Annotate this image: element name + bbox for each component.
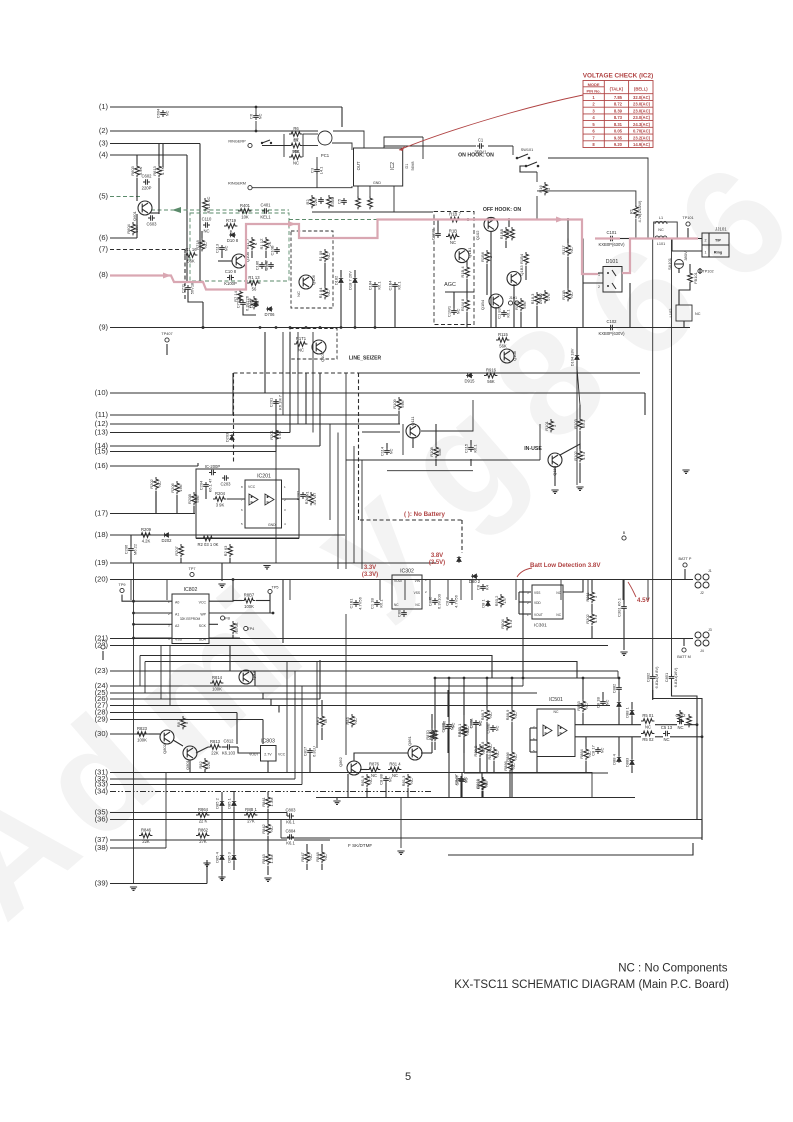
svg-text:RINGERP: RINGERP [228,140,246,144]
svg-text:R886: R886 [505,751,510,761]
resistor R804 4.7 [494,594,507,607]
label B point [622,531,626,540]
svg-text:TP407: TP407 [161,332,172,336]
svg-text:NC: NC [494,726,499,732]
diode D182 [334,275,344,285]
resistor R3x [356,196,361,209]
wire c3 drop2 [316,174,318,188]
resistor R823 100K [135,726,148,743]
wire drop x405 from bus20 [404,580,406,601]
capacitor C101 KXB [598,230,625,247]
capacitor C401 KEL1 [260,203,271,220]
svg-text:4.5V: 4.5V [637,597,651,604]
transistor Q111 [406,416,420,438]
svg-text:R883: R883 [576,700,581,710]
resistor R883 NC [576,699,589,712]
capacitor C110 NC [202,217,212,234]
svg-text:R843: R843 [261,853,266,863]
resistor R16 1 [538,182,551,195]
svg-text:C886: C886 [442,720,447,730]
voltage table text [586,82,650,147]
wire bundle b295 [294,671,296,779]
svg-text:VDD: VDD [534,601,541,605]
capacitor C804 K6.1 [285,829,296,846]
wire right L paths [672,690,698,820]
svg-text:NC: NC [645,725,651,730]
svg-text:Q80x: Q80x [251,670,256,680]
svg-text:( ): No Battery: ( ): No Battery [404,511,445,518]
svg-text:D85 3: D85 3 [227,851,232,862]
svg-text:K6.1: K6.1 [286,820,295,825]
inductor L1 NC [655,216,667,232]
svg-text:OFF HOOK: ON: OFF HOOK: ON [483,207,522,213]
capacitor C183 [497,307,511,318]
svg-text:TP7: TP7 [189,567,196,571]
svg-text:(5): (5) [99,192,109,201]
svg-text:C1B1: C1B1 [349,598,354,609]
IC IC201 outer [196,469,299,538]
resistor R1BB [499,227,509,240]
resistor R811b NC [457,722,470,735]
wire drop x290 from bus20 [289,580,291,601]
svg-text:R1T1: R1T1 [296,336,307,341]
test point TP101 [682,216,693,226]
resistor R116 56K [184,247,197,264]
wire from (22) [110,645,608,647]
svg-text:NC: NC [488,744,493,750]
svg-text:(16): (16) [95,461,109,470]
svg-text:M6.22: M6.22 [132,543,137,555]
svg-text:B: B [623,531,626,535]
wire feed 650 [140,656,492,679]
svg-text:R816: R816 [475,778,480,788]
svg-text:L102: L102 [668,308,673,318]
wire from (28) [110,712,237,714]
transistor Q107 [312,340,326,362]
svg-text:C204: C204 [199,480,204,490]
wire vert x166 38 [165,773,167,849]
capacitor C8zz [476,584,490,591]
capacitor C186 [255,259,269,271]
svg-text:R8 0K: R8 0K [234,622,239,633]
diode D202 [161,533,172,543]
svg-text:IC-200P: IC-200P [205,464,221,469]
svg-text:220P: 220P [142,186,152,191]
test point TP102 [698,269,714,274]
svg-text:NC: NC [450,240,456,245]
svg-text:R8 72: R8 72 [428,729,433,740]
svg-text:L101: L101 [657,242,665,246]
svg-text:D8 1: D8 1 [481,599,486,608]
svg-text:KX-TSC11 SCHEMATIC DIAGRAM (Ma: KX-TSC11 SCHEMATIC DIAGRAM (Main P.C. Bo… [454,979,729,991]
svg-text:NC: NC [409,778,414,784]
capacitor C817 [303,746,317,757]
resistor R1B4 [460,265,470,278]
test point RINGERM [228,182,252,190]
wire vert x346 low [345,614,347,755]
svg-text:4.7u: 4.7u [508,620,513,628]
svg-text:C1: C1 [478,138,484,143]
svg-text:R207: R207 [174,545,179,555]
resistor R1B7 on pink [448,212,461,222]
svg-text:NC: NC [569,292,574,298]
svg-text:C115: C115 [464,443,469,453]
wire from (7) dashed [110,249,185,251]
svg-text:C88B: C88B [486,723,491,733]
resistor R187 [514,298,527,311]
svg-text:JJ101: JJ101 [715,227,727,232]
resistor R109 56K [392,397,405,410]
capacitor C707 [236,295,250,311]
svg-text:IC2: IC2 [390,162,396,170]
wire vert x577 [576,329,578,486]
svg-text:K6.103: K6.103 [222,751,236,756]
svg-text:C851: C851 [664,672,669,682]
svg-text:C602: C602 [141,174,152,179]
svg-text:(6): (6) [99,233,109,242]
transistor Q1B3 [507,265,524,286]
svg-text:D1: D1 [405,164,409,169]
svg-text:R5 01: R5 01 [642,713,654,718]
svg-text:R83: R83 [345,717,350,725]
svg-text:Q107: Q107 [320,351,325,362]
svg-text:4: 4 [284,522,286,526]
wire bundle x298 [297,332,299,424]
IC IC301 [532,585,563,619]
wire bus y424 [195,423,400,425]
svg-text:R109: R109 [392,398,397,408]
svg-text:(19): (19) [95,558,109,567]
svg-text:R103: R103 [573,418,578,428]
wire from (6) [110,237,137,239]
wire from (35) [110,812,287,814]
svg-text:D104 18V: D104 18V [570,348,575,366]
svg-text:R2 03 1 0K: R2 03 1 0K [198,542,219,547]
svg-text:R108: R108 [429,446,434,456]
wire from (2) [110,130,318,132]
transformer L102 [668,305,701,321]
svg-text:NC: NC [387,777,392,783]
varistor SA101 [667,251,688,270]
resistor R6 1K [289,126,302,143]
svg-text:56V8: 56V8 [411,162,415,171]
svg-text:NC: NC [477,721,482,727]
svg-text:NC: NC [695,312,701,316]
ground gnd ic201 [218,584,225,587]
IC IC201 [245,474,282,529]
svg-text:(1): (1) [99,102,109,111]
capacitor C3 L4.1 [310,166,324,175]
svg-text:2.7V: 2.7V [264,753,272,757]
diode D853 [227,851,237,862]
svg-text:R613: R613 [152,165,157,175]
svg-text:C817: C817 [303,746,308,756]
wire c8b7 [461,773,463,777]
svg-text:NC: NC [257,114,262,120]
capacitor C1 350V1 [474,138,487,155]
svg-text:C1W1: C1W1 [447,305,452,317]
svg-text:IC302: IC302 [400,569,414,575]
svg-text:R7: R7 [293,138,299,143]
ground gnd inuse [551,490,558,493]
switch SW1 ringer [262,140,270,143]
svg-text:R841: R841 [261,796,266,806]
svg-text:A2: A2 [175,624,179,628]
svg-text:FB101: FB101 [693,271,698,284]
resistor R501 NC [641,713,654,730]
wire from (39) [110,883,207,885]
wire ringer r6 out [303,133,318,135]
svg-text:Q1B3: Q1B3 [519,265,524,276]
svg-text:NC: NC [488,712,493,718]
wire from (16) [110,465,198,467]
dashed box AGC [434,212,474,325]
resistor R1B6 [480,250,493,263]
svg-text:C882: C882 [612,683,617,693]
resistor R1B NC [446,229,459,246]
capacitor C81B NC [596,697,610,708]
svg-text:C8 88: C8 88 [379,773,384,784]
svg-text:NC: NC [495,751,500,757]
svg-text:C10B: C10B [270,245,275,255]
wire C6 tie [255,107,257,113]
wire bottom left [221,792,223,800]
svg-text:6.81u(16V): 6.81u(16V) [673,667,678,687]
capacitor C888 NC [379,773,393,784]
resistor R710 NC [203,196,212,213]
svg-text:C203: C203 [220,482,231,487]
svg-text:56: 56 [252,287,257,292]
svg-text:KEL1: KEL1 [260,215,271,220]
capacitor C10B [270,245,280,255]
svg-text:NC: NC [308,854,313,860]
svg-text:K6.1: K6.1 [581,419,586,428]
diode D203 [225,432,235,442]
svg-text:R2 63: R2 63 [223,545,228,556]
capacitor C203 [220,475,231,486]
svg-text:TP5: TP5 [272,586,279,590]
resistor R80K [231,621,240,634]
capacitor C203b [205,464,221,475]
svg-text:R1BB: R1BB [499,228,504,239]
svg-text:R204: R204 [215,491,226,496]
capacitor C204 [199,478,213,493]
svg-text:9.35: 9.35 [614,135,623,140]
resistor R843 1.3M [261,852,274,865]
wire ic501 top bus [435,677,619,679]
svg-text:8.39: 8.39 [614,108,623,113]
svg-text:R88 7: R88 7 [480,709,485,720]
resistor R813 22K [208,739,221,756]
wire r807 [233,600,242,602]
svg-text:PC1: PC1 [321,153,330,158]
resistor R816b NC [476,777,489,790]
resistor R113 56 [247,275,260,292]
dashed box center [234,372,359,374]
wire bus20 to J [680,579,693,581]
transistor Q862 [338,756,361,775]
capacitor C88Bb NC [441,722,455,732]
svg-text:6.3V100: 6.3V100 [436,593,441,609]
svg-text:NC: NC [663,737,669,742]
svg-text:KXB0P(630V): KXB0P(630V) [598,331,625,336]
wire sw101 b [512,146,514,155]
svg-text:R311: R311 [585,592,590,602]
svg-text:VOLTAGE CHECK (IC2): VOLTAGE CHECK (IC2) [583,73,653,80]
svg-text:56V18: 56V18 [189,282,194,294]
svg-text:56K: 56K [187,259,195,264]
wire from (12) [110,423,306,425]
svg-text:R2 10: R2 10 [304,493,309,504]
svg-text:ON HOOK: ON: ON HOOK: ON [458,153,494,159]
svg-text:2: 2 [598,285,600,289]
resistor R7 56K [289,138,302,155]
wire x578 conn [577,368,580,405]
wire vert x672 [671,239,673,675]
svg-text:SDA: SDA [199,638,207,642]
resistor R1 4.7k [629,200,642,222]
svg-text:R102: R102 [573,450,578,460]
svg-text:R604: R604 [126,223,131,233]
resistor R826 [687,714,692,727]
svg-text:J101: J101 [509,296,517,300]
svg-text:4.2K: 4.2K [142,539,151,544]
wire ic2 bot1 [357,186,359,196]
svg-text:C8 1B: C8 1B [596,697,601,708]
svg-text:7: 7 [592,135,595,140]
wire c1 b [488,145,513,147]
wire vert x654 [652,239,654,675]
diode D852 [215,797,225,808]
wire drop to 25 [144,662,146,694]
wire vert x354 [353,446,355,563]
wire from (3) [110,143,200,145]
inductor L101 [655,236,667,246]
svg-text:R814: R814 [212,675,223,680]
svg-text:VOUT: VOUT [534,613,543,617]
svg-text:8.73: 8.73 [614,115,623,120]
label J101 [508,296,519,305]
wire from (26) [110,698,320,700]
opto PC1 [318,131,332,145]
svg-text:0.70(AC): 0.70(AC) [633,129,651,134]
wire ic2 pin stub [393,186,395,212]
svg-text:6.81u(M 8V): 6.81u(M 8V) [654,666,659,689]
wire vert r1 down [635,219,637,239]
wire drop x461 from bus20 [460,580,462,601]
svg-text:10K: 10K [241,215,249,220]
IC302 internals [394,578,427,607]
svg-text:16K: 16K [178,484,183,491]
svg-text:J4: J4 [700,649,704,653]
svg-text:L4.1: L4.1 [318,166,323,175]
svg-text:VCC: VCC [248,485,256,489]
svg-text:Q111: Q111 [410,416,415,426]
wire bundle b302 [301,686,303,785]
svg-text:Q802: Q802 [162,743,167,754]
capacitor C5 [337,198,347,205]
svg-text:C80: C80 [397,609,402,617]
resistor R210 [304,492,317,506]
svg-text:VOUT: VOUT [394,579,403,583]
ground gnd q862 [333,801,340,804]
svg-text:8: 8 [592,142,595,147]
svg-text:1.5: 1.5 [502,597,507,603]
svg-text:IC501: IC501 [549,697,563,703]
svg-text:4.7u: 4.7u [581,452,586,460]
svg-text:K6.1: K6.1 [376,281,381,290]
svg-text:NC: NC [298,348,304,353]
wire x523 link24 [522,678,524,686]
svg-text:C1W2: C1W2 [431,228,436,240]
svg-text:D203: D203 [225,432,230,442]
diode D801b [457,556,461,563]
capacitor C6 NC [249,113,263,120]
svg-text:56K: 56K [499,344,507,349]
wire ic802 pins [122,595,172,602]
wire vert x133 low [133,563,135,884]
diode D851 [227,797,237,808]
wire vert x401 [400,798,402,849]
svg-text:D80 2: D80 2 [469,579,481,584]
wire bus y373 [359,372,641,374]
svg-text:R847: R847 [300,851,305,861]
wire ringer col2 [302,134,304,157]
ground gnd c301 [620,652,627,655]
wire from (21) [110,638,693,640]
resistor R203 10K [198,536,219,547]
capacitor C886 NC [442,720,456,730]
capacitor C1W2 [431,228,441,240]
wire from (25) [110,692,537,694]
svg-text:1: 1 [546,187,551,190]
svg-text:C88A: C88A [469,718,474,728]
wire pc1 r [332,143,352,150]
resistor R847 NC [300,850,313,863]
svg-text:(30): (30) [95,729,109,738]
test point BATT P [679,557,692,567]
wire ic2 bot2 [369,186,371,196]
green dashed box [190,213,289,281]
wire right low vert [701,820,703,839]
transistor Q102 [475,217,498,240]
svg-text:(7): (7) [99,245,109,254]
resistor R876 NC [367,762,380,779]
svg-text:R101: R101 [544,420,549,430]
wire caps right [652,681,654,700]
wire q111 row [362,431,400,433]
svg-text:R804: R804 [500,618,505,628]
svg-text:R876: R876 [369,762,380,767]
svg-text:R16: R16 [538,185,543,193]
svg-text:VIN: VIN [415,579,421,583]
svg-text:(36): (36) [95,815,109,824]
svg-text:NC: NC [223,246,228,252]
IC IC2 [354,148,403,186]
svg-text:(3.5V): (3.5V) [429,560,445,566]
coil FB101 [688,271,698,284]
wire ringerM [252,186,352,188]
svg-text:(38): (38) [95,843,109,852]
svg-text:OUT: OUT [356,161,361,170]
diode D883 [625,757,635,767]
svg-text:D202: D202 [161,538,172,543]
svg-text:R1B6: R1B6 [480,251,485,262]
wire ic2 rail [312,211,350,213]
svg-text:R30M: R30M [330,197,335,208]
svg-text:(17): (17) [95,509,109,518]
resistor R206 16K [170,481,183,494]
